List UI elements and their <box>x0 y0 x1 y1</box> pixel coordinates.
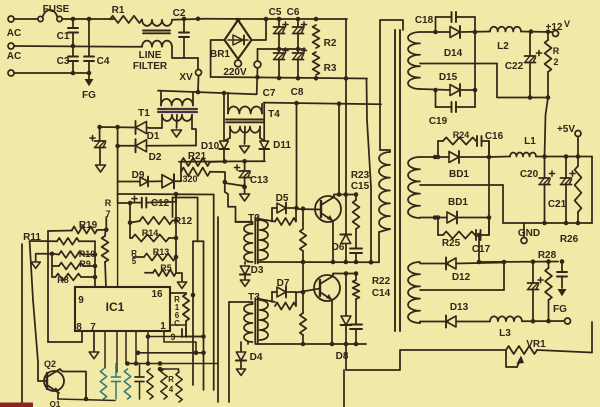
svg-text:D3: D3 <box>251 265 264 276</box>
resistor R2 out <box>545 32 560 98</box>
transformer T3 left winding <box>244 302 253 342</box>
fuse F1 <box>38 10 62 22</box>
wire <box>337 104 342 197</box>
wire <box>591 157 593 224</box>
svg-text:1: 1 <box>160 321 166 332</box>
node +12V terminal <box>546 19 570 37</box>
svg-text:XV: XV <box>179 72 193 83</box>
svg-text:D7: D7 <box>277 278 290 289</box>
wire drive rail <box>179 159 265 164</box>
svg-text:R21: R21 <box>188 151 207 162</box>
wire bottom loop <box>346 344 506 370</box>
wire <box>14 18 39 20</box>
pin 7 <box>90 322 96 333</box>
wire <box>205 18 263 20</box>
wire <box>104 331 106 368</box>
svg-text:R28: R28 <box>538 250 557 261</box>
wire collector lower <box>333 271 358 276</box>
capacitor C6 <box>287 7 307 78</box>
wire <box>477 233 482 265</box>
label R5 vertical <box>131 249 137 266</box>
svg-text:4: 4 <box>169 385 174 394</box>
wire <box>260 219 276 222</box>
wire <box>193 240 204 242</box>
wire <box>438 141 489 157</box>
wire <box>125 361 218 366</box>
svg-text:R14: R14 <box>142 228 159 238</box>
transformer T5 core <box>395 30 400 331</box>
wire <box>474 32 476 90</box>
resistor R23 <box>351 170 370 229</box>
svg-text:R8: R8 <box>57 275 69 285</box>
inductor L3 <box>490 316 522 339</box>
wire <box>125 331 127 364</box>
capacitor C14 <box>350 288 391 344</box>
transformer T4 secondary <box>224 127 265 142</box>
wire <box>172 47 184 58</box>
svg-text:C5: C5 <box>269 7 282 18</box>
inductor L1 <box>510 136 536 157</box>
svg-text:320: 320 <box>182 174 197 184</box>
transformer T1 secondary <box>162 115 192 129</box>
svg-text:8: 8 <box>76 322 82 333</box>
diode D7 <box>272 278 296 302</box>
wire <box>343 370 345 407</box>
label 220V <box>223 67 247 78</box>
node AC terminal 3 <box>8 70 14 76</box>
wire bridge right up <box>252 17 269 40</box>
svg-text:R9: R9 <box>79 259 91 269</box>
svg-text:R3: R3 <box>324 63 337 74</box>
resistor R8 <box>52 274 95 285</box>
transformer T2 left winding <box>244 222 253 262</box>
capacitor bottom C-a <box>112 364 121 400</box>
resistor T3 bias R <box>300 262 306 344</box>
svg-text:R: R <box>553 46 560 56</box>
inductor line-filter bottom winding <box>142 41 172 47</box>
wire 12V return <box>497 64 550 100</box>
transistor Q2 <box>38 359 64 393</box>
wire <box>264 101 381 106</box>
wire <box>203 241 205 390</box>
svg-text:D5: D5 <box>276 193 289 204</box>
svg-text:AC: AC <box>7 51 21 62</box>
capacitor C16 <box>477 131 504 146</box>
svg-text:D1: D1 <box>147 131 160 142</box>
potentiometer VR1 <box>506 339 546 367</box>
svg-text:GND: GND <box>518 228 540 239</box>
label FUSE <box>43 4 70 15</box>
wire collector Q2 <box>60 370 88 402</box>
label AC line 1 <box>7 28 21 39</box>
capacitor C12 <box>130 194 176 209</box>
resistor R10 <box>50 249 96 259</box>
wire 12V centre tap <box>420 63 497 65</box>
transformer T2 core <box>255 217 257 264</box>
wire <box>247 261 249 263</box>
resistor R9 <box>52 259 95 269</box>
resistor bottom R-c <box>147 369 153 399</box>
wire <box>545 98 549 157</box>
diode D14 <box>420 26 490 59</box>
diode D9b <box>149 174 181 188</box>
wire <box>47 231 49 342</box>
diode D8 <box>336 274 352 363</box>
wire rail 0V <box>479 259 564 264</box>
resistor R25 <box>438 218 475 250</box>
wire <box>379 229 390 262</box>
svg-text:D11: D11 <box>273 140 291 151</box>
diode BD1 upper <box>420 151 491 180</box>
resistor R28 <box>538 250 557 321</box>
svg-text:VR1: VR1 <box>526 339 546 350</box>
pin 16 <box>151 289 163 300</box>
svg-text:C15: C15 <box>351 181 370 192</box>
svg-text:C21: C21 <box>548 199 567 210</box>
resistor bottom R-d <box>158 367 179 399</box>
capacitor C2 <box>173 8 189 58</box>
wire <box>170 324 186 326</box>
svg-text:C19: C19 <box>429 116 448 127</box>
capacitor C17 <box>472 218 491 256</box>
svg-text:+5V: +5V <box>557 124 575 135</box>
wire emitter rail lower <box>256 342 366 347</box>
svg-text:C13: C13 <box>250 175 269 186</box>
wire <box>294 103 299 210</box>
transformer T1 primary <box>161 91 193 106</box>
resistor R3 <box>313 52 337 75</box>
transformer T3 label <box>248 292 260 303</box>
wire <box>128 203 133 238</box>
capacitor C8 label <box>291 87 304 98</box>
wire <box>147 127 163 130</box>
wire <box>135 331 137 364</box>
svg-text:L3: L3 <box>499 328 511 339</box>
resistor bottom R-b <box>124 369 130 399</box>
svg-text:FG: FG <box>553 304 567 315</box>
diode D1 <box>100 121 160 142</box>
wire <box>488 141 490 235</box>
wire <box>537 322 592 353</box>
diode D10 <box>201 93 229 161</box>
wire <box>116 331 118 372</box>
svg-text:C16: C16 <box>485 131 504 142</box>
svg-text:C22: C22 <box>505 61 524 72</box>
svg-text:D6: D6 <box>332 242 345 253</box>
svg-text:D2: D2 <box>149 152 162 163</box>
transformer T2 left top wire <box>236 221 253 223</box>
wire <box>197 198 199 242</box>
resistor R7 <box>102 198 112 287</box>
resistor T2 base R <box>275 208 296 225</box>
wire 5V centre tap <box>420 184 503 186</box>
wire <box>170 293 186 294</box>
wire <box>173 198 198 218</box>
resistor R4 <box>168 372 182 402</box>
wire <box>225 183 247 189</box>
wire collector upper <box>334 192 358 197</box>
resistor R16 <box>174 294 189 321</box>
svg-text:T4: T4 <box>268 109 280 120</box>
svg-text:C3: C3 <box>57 56 70 67</box>
wire <box>115 125 120 194</box>
watermark red bar <box>0 403 33 407</box>
node -V terminal <box>565 318 571 324</box>
svg-text:C12: C12 <box>151 198 170 209</box>
node AC terminal 1 <box>8 16 14 22</box>
wire <box>118 192 214 206</box>
wire <box>180 162 182 181</box>
wire <box>229 302 253 402</box>
resistor R13 <box>133 247 176 261</box>
wire <box>164 331 196 353</box>
capacitor C21 <box>548 157 575 224</box>
capacitor C25 fg <box>553 262 567 316</box>
wire 220V mid-tap <box>254 49 261 94</box>
wire <box>14 71 91 76</box>
svg-text:D4: D4 <box>250 352 263 363</box>
svg-text:BD1: BD1 <box>448 197 468 208</box>
svg-text:C1: C1 <box>57 31 70 42</box>
wire <box>521 29 552 34</box>
diode D9 <box>118 170 148 186</box>
resistor T2 bias R <box>300 206 306 262</box>
capacitor C4 <box>84 19 110 73</box>
wire <box>213 195 215 391</box>
capacitor C13 <box>234 161 268 201</box>
transformer T2 label <box>248 213 260 224</box>
svg-text:R22: R22 <box>372 276 391 287</box>
resistor R1 <box>110 5 142 23</box>
wire bridge left to rail <box>211 40 225 77</box>
svg-text:D9: D9 <box>132 170 145 181</box>
label R11 <box>23 232 41 243</box>
svg-text:R: R <box>168 375 174 384</box>
wire <box>158 90 257 96</box>
resistor R2 <box>313 25 337 49</box>
svg-text:D12: D12 <box>452 272 471 283</box>
wire <box>117 203 119 287</box>
capacitor C20 <box>520 157 555 224</box>
svg-text:Q2: Q2 <box>44 359 56 369</box>
diode D12 <box>420 258 504 284</box>
wire <box>14 44 142 49</box>
wire base upper <box>297 208 322 211</box>
wire mid rail <box>258 47 306 52</box>
resistor R12 <box>130 216 193 227</box>
transformer T5 sec winding 12V <box>408 32 420 89</box>
wire <box>260 299 276 302</box>
svg-text:R13: R13 <box>153 247 170 257</box>
transistor Q4 lower <box>314 275 340 344</box>
transformer T2 right winding <box>260 219 269 261</box>
wire bottom rail <box>277 76 349 81</box>
capacitor C10 standby filter <box>90 125 106 172</box>
svg-text:FG: FG <box>82 90 96 101</box>
svg-text:C20: C20 <box>520 169 539 180</box>
resistor R5 <box>145 263 176 276</box>
svg-text:R26: R26 <box>560 234 579 245</box>
transformer T5 primary top <box>380 20 403 150</box>
ground <box>89 331 99 359</box>
transformer T5 primary winding <box>379 150 390 229</box>
resistor T3 base R <box>275 292 296 310</box>
wire -5 rail <box>522 319 564 324</box>
ground <box>31 254 52 269</box>
wire GND rail <box>503 185 592 225</box>
svg-text:AC: AC <box>7 28 21 39</box>
wire emitter rail <box>259 260 380 265</box>
wire <box>93 241 98 287</box>
wire <box>172 17 205 22</box>
diode D2 <box>118 139 196 163</box>
pin 1 <box>160 321 166 332</box>
wire <box>136 351 206 356</box>
transistor Q3 upper <box>315 196 341 262</box>
capacitor C5 <box>269 7 288 78</box>
transformer T4 primary <box>228 93 280 120</box>
resistor R24 <box>438 130 476 145</box>
inductor line-filter top winding <box>142 20 172 26</box>
svg-text:C: C <box>174 319 180 328</box>
wire <box>536 154 592 159</box>
svg-text:R25: R25 <box>442 238 461 249</box>
inductor L2 <box>490 27 521 52</box>
svg-text:C2: C2 <box>173 8 186 19</box>
wire <box>191 241 196 385</box>
wire <box>367 79 374 265</box>
diode D4 <box>236 342 263 375</box>
node GND terminal <box>518 223 540 244</box>
resistor R14 <box>130 228 176 242</box>
capacitor C18 <box>415 12 475 32</box>
svg-text:LINE: LINE <box>139 50 162 61</box>
transformer T3 core <box>255 298 257 344</box>
capacitor C9 <box>170 319 205 342</box>
label T1 <box>138 108 150 119</box>
capacitor C1 <box>57 19 78 46</box>
node XV connector <box>179 58 201 92</box>
resistor R22 <box>353 274 391 300</box>
wire 220V bottom rail <box>211 77 367 79</box>
svg-text:C8: C8 <box>291 87 304 98</box>
node 220V terminal <box>235 60 242 67</box>
svg-text:T1: T1 <box>138 108 150 119</box>
node AC terminal 2 <box>8 43 14 49</box>
diode BD1 lower <box>420 197 491 224</box>
wire B+ vertical <box>345 19 347 262</box>
transformer T5 sec winding -V <box>408 262 420 323</box>
wire <box>176 273 187 288</box>
svg-text:C17: C17 <box>472 244 491 255</box>
resistor R20 <box>181 168 225 184</box>
diode D3 <box>240 262 264 286</box>
wire <box>147 331 149 364</box>
wire top rail <box>263 17 347 22</box>
wire <box>21 244 23 407</box>
svg-text:V: V <box>564 19 570 29</box>
svg-text:R24: R24 <box>453 130 470 140</box>
wire <box>30 241 38 381</box>
resistor R19 <box>48 220 109 234</box>
svg-text:BD1: BD1 <box>449 169 469 180</box>
svg-text:D10: D10 <box>201 141 220 152</box>
svg-text:5: 5 <box>132 257 137 266</box>
wire <box>50 392 61 407</box>
wire loop pin8 <box>48 332 82 342</box>
label AC line 2 <box>7 51 21 62</box>
wire <box>192 129 196 146</box>
wire base lower <box>297 289 321 293</box>
svg-text:C4: C4 <box>97 56 110 67</box>
capacitor C15 <box>350 181 370 262</box>
transformer T3 right winding <box>260 300 269 340</box>
capacitor C3 <box>57 46 78 73</box>
svg-text:C14: C14 <box>372 288 391 299</box>
diode D11 <box>259 103 291 162</box>
wire <box>62 17 114 22</box>
wire <box>223 180 253 222</box>
svg-text:FILTER: FILTER <box>133 61 168 72</box>
transformer T4 core <box>226 120 264 123</box>
wire <box>51 254 53 277</box>
diode D13 <box>420 302 490 328</box>
ground FG input <box>82 73 96 101</box>
svg-text:Q1: Q1 <box>50 400 61 407</box>
svg-text:D13: D13 <box>450 302 469 313</box>
resistor bottom R-a <box>100 369 106 399</box>
diode D6 <box>332 235 352 254</box>
svg-text:C7: C7 <box>263 88 276 99</box>
svg-text:FUSE: FUSE <box>43 4 70 15</box>
svg-text:D15: D15 <box>439 72 458 83</box>
capacitor C24 <box>528 262 544 322</box>
wire <box>247 342 249 344</box>
svg-text:C6: C6 <box>287 7 300 18</box>
wire T4 centre tap <box>240 127 250 154</box>
svg-text:R23: R23 <box>351 170 370 181</box>
svg-text:2: 2 <box>553 57 558 67</box>
wire <box>58 399 115 401</box>
wire <box>174 194 179 273</box>
svg-text:R2: R2 <box>324 38 337 49</box>
svg-text:L2: L2 <box>497 41 509 52</box>
diode D15 <box>420 72 477 96</box>
svg-text:IC1: IC1 <box>106 300 125 314</box>
transformer T1 core <box>158 109 197 112</box>
svg-text:D14: D14 <box>444 48 463 59</box>
node +5V terminal <box>557 124 581 157</box>
transformer T5 sec winding 5V <box>408 157 420 218</box>
resistor R11 <box>30 238 95 245</box>
wire 5V out <box>489 156 510 159</box>
svg-text:C18: C18 <box>415 15 434 26</box>
wire centre tap -V <box>420 263 504 291</box>
line filter core <box>143 31 170 34</box>
wire T1 centre tap <box>172 115 182 137</box>
svg-text:7: 7 <box>105 209 110 219</box>
svg-text:R: R <box>105 198 112 208</box>
svg-text:9: 9 <box>78 295 84 306</box>
capacitor C19 <box>429 90 475 127</box>
label LINE FILTER <box>133 50 168 72</box>
resistor R21 <box>181 151 225 166</box>
capacitor bottom C-b <box>135 364 144 400</box>
svg-text:L1: L1 <box>524 136 536 147</box>
pin 9 <box>78 295 84 306</box>
svg-text:R19: R19 <box>79 220 98 231</box>
bridge rectifier BR1 <box>210 18 252 60</box>
